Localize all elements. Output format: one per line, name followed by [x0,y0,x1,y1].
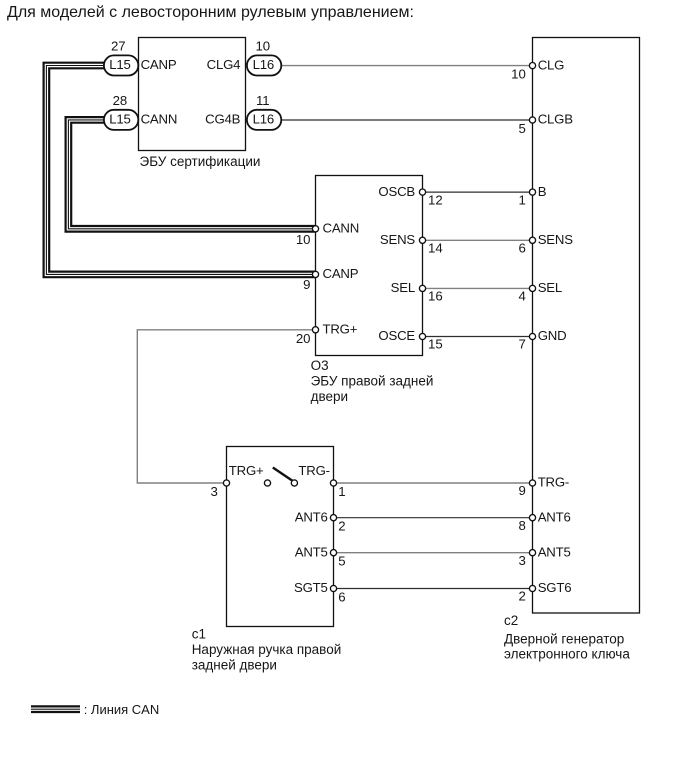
pin circle O3 TRG+ [312,327,318,333]
svg-text:SGT5: SGT5 [294,580,328,595]
svg-text:ЭБУ правой задней: ЭБУ правой задней [311,373,434,388]
pin circle c2 ANT6 [529,515,535,521]
pin circle O3 CANN [312,226,318,232]
svg-text:GND: GND [538,328,567,343]
pin circle c2 ANT5 [529,550,535,556]
pin circle c2 CLGB [529,117,535,123]
connector oval L16 pin 11 [247,110,281,130]
svg-text:16: 16 [428,289,443,304]
svg-text:14: 14 [428,241,443,256]
svg-text:электронного ключа: электронного ключа [504,647,630,662]
O3 right rear door ECU box [316,176,423,356]
svg-text:ANT5: ANT5 [295,544,328,559]
switch blade [273,468,293,482]
svg-text:SENS: SENS [380,232,416,247]
svg-text:4: 4 [518,289,525,304]
svg-text:11: 11 [256,93,270,108]
svg-text:3: 3 [210,484,217,499]
switch contact right [291,480,297,486]
wire SEL (O3 pin 16 to c2 pin 4, gray) [423,287,533,289]
pin circle c1 TRG- [330,480,336,486]
svg-text:двери: двери [311,389,348,404]
svg-text:OSCE: OSCE [378,328,415,343]
pin circle O3 OSCB [419,189,425,195]
wire SGT5 to SGT6 (c1 pin 6 to c2 pin 2, dark) [334,588,533,590]
svg-text:L16: L16 [253,57,274,72]
CAN line CANP (cert ECU pin 27 to O3 pin 9) [46,66,315,275]
svg-text:3: 3 [518,553,525,568]
svg-text:Для моделей с левосторонним ру: Для моделей с левосторонним рулевым упра… [7,4,414,21]
pin circle c1 TRG+ [223,480,229,486]
svg-text:ANT5: ANT5 [538,544,571,559]
pin circle c2 SGT6 [529,585,535,591]
wire CLG (L16 pin 10 to c2 pin 10, gray) [281,65,532,67]
pin circle O3 SEL [419,285,425,291]
svg-text:2: 2 [338,519,345,534]
switch contact left [264,480,270,486]
svg-text:15: 15 [428,337,443,352]
svg-text:6: 6 [338,590,345,605]
svg-text:TRG+: TRG+ [323,322,358,337]
svg-text:ANT6: ANT6 [295,509,328,524]
wire TRG+ (O3 pin 20 to c1 pin 3, gray, L-shaped) [137,330,315,483]
svg-text:1: 1 [338,484,345,499]
svg-text:L16: L16 [253,112,274,127]
wire ANT6 (c1 pin 2 to c2 pin 8, dark) [334,517,533,519]
wire OSCB to B (O3 pin 12 to c2 pin 1, dark) [423,191,533,193]
pin circle c2 SEL [529,285,535,291]
legend CAN line symbol [31,705,80,713]
svg-text:6: 6 [518,241,525,256]
svg-text:SENS: SENS [538,232,574,247]
pin circle c1 ANT6 [330,515,336,521]
svg-text:Наружная ручка правой: Наружная ручка правой [192,642,342,657]
pin circle O3 OSCE [419,333,425,339]
connector oval L15 pin 28 [104,110,138,130]
svg-text:12: 12 [428,192,443,207]
svg-text:ЭБУ сертификации: ЭБУ сертификации [140,154,261,169]
pin circle O3 CANP [312,271,318,277]
pin circle c2 B [529,189,535,195]
pin circle c2 SENS [529,237,535,243]
svg-text:c1: c1 [192,626,206,641]
svg-text:10: 10 [296,232,311,247]
svg-text:: Линия CAN: : Линия CAN [84,702,160,717]
svg-text:8: 8 [518,518,525,533]
pin circle c2 CLG [529,63,535,69]
c1 outside handle box [227,447,334,627]
svg-text:c2: c2 [504,613,518,628]
svg-text:О3: О3 [311,358,329,373]
svg-text:CG4B: CG4B [205,112,241,127]
svg-text:B: B [538,184,547,199]
svg-text:10: 10 [255,39,270,54]
certification ECU box [139,38,246,151]
svg-text:28: 28 [113,93,128,108]
svg-text:TRG-: TRG- [298,463,329,478]
pin circle O3 SENS [419,237,425,243]
svg-text:Дверной генератор: Дверной генератор [504,632,624,647]
c2 door key oscillator box [533,38,640,614]
svg-text:1: 1 [518,192,525,207]
svg-text:ANT6: ANT6 [538,509,571,524]
svg-text:20: 20 [296,331,311,346]
svg-text:5: 5 [518,121,525,136]
svg-text:L15: L15 [109,112,130,127]
svg-text:CANP: CANP [141,57,177,72]
svg-text:SGT6: SGT6 [538,580,572,595]
connector oval L16 pin 10 [247,55,281,75]
wire SENS (O3 pin 14 to c2 pin 6, gray) [423,239,533,241]
svg-text:CLGB: CLGB [538,112,574,127]
svg-text:SEL: SEL [391,280,415,295]
pin circle c1 SGT5 [330,585,336,591]
wire CG4B to CLGB (L16 pin 11 to c2 pin 5, dark) [281,119,532,121]
svg-text:5: 5 [338,554,345,569]
svg-text:2: 2 [518,589,525,604]
svg-text:TRG+: TRG+ [229,463,264,478]
svg-text:10: 10 [511,66,526,81]
svg-text:TRG-: TRG- [538,475,569,490]
svg-text:OSCB: OSCB [378,184,415,199]
svg-text:CLG: CLG [538,57,565,72]
CAN line CANN (cert ECU pin 28 to O3 pin 10) [68,120,315,229]
svg-text:L15: L15 [109,57,130,72]
svg-text:SEL: SEL [538,280,562,295]
svg-text:задней двери: задней двери [192,657,277,672]
connector oval L15 pin 27 [104,55,138,75]
wire TRG- (c1 pin 1 through switch to c2 pin 9, gray) [227,482,533,484]
svg-text:27: 27 [111,39,126,54]
svg-text:9: 9 [518,483,525,498]
svg-text:CANP: CANP [323,266,359,281]
pin circle c2 GND [529,333,535,339]
wire OSCE to GND (O3 pin 15 to c2 pin 7, dark) [423,336,533,338]
svg-text:CLG4: CLG4 [207,57,241,72]
pin circle c2 TRG- [529,480,535,486]
svg-text:CANN: CANN [323,221,360,236]
svg-text:CANN: CANN [141,112,178,127]
pin circle c1 ANT5 [330,550,336,556]
svg-text:9: 9 [303,277,310,292]
svg-text:7: 7 [518,337,525,352]
wire ANT5 (c1 pin 5 to c2 pin 3, gray) [334,552,533,554]
